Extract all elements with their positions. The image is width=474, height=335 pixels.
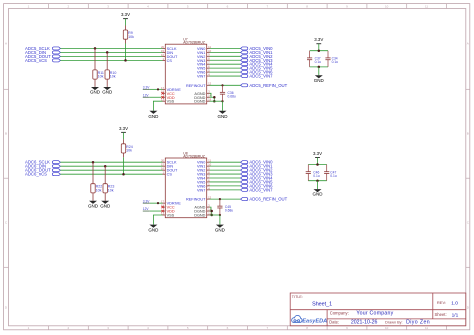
svg-text:B: B [5,132,7,136]
svg-text:10: 10 [385,4,389,8]
svg-text:GND: GND [215,228,226,233]
junction bottom rail [318,66,321,69]
title block outline [290,293,466,326]
net flag ADC5_VIN2 [241,54,274,59]
wire VIN6 to ADC6_VIN6 [210,185,241,187]
wire ground bus to GND stem [210,100,223,102]
pin 12 REFINOUT of U7 [186,82,212,88]
capacitor C46 0.1u [306,165,320,181]
title block horizontal line 2 [327,318,466,320]
wire REFINOUT to ADC5_REFIN_OUT [210,84,241,86]
svg-text:EasyEDA: EasyEDA [302,318,327,324]
pin 2 VDD of U8 [163,207,175,213]
ground under VSS [148,225,159,233]
resistor R9 10k pull-up [123,26,134,44]
net flag ADC6_VIN0 [241,160,274,165]
no-connect mark on VDD pin [161,210,163,212]
wire DGND to ground bus [210,97,215,101]
wire cap bottom to ground [219,215,221,225]
net flag ADC6_SCLK [25,160,60,165]
wire 3.3V flag to R24 [123,132,125,139]
svg-text:2021-10-26: 2021-10-26 [351,320,378,326]
wire bottom rail to ground [317,181,319,189]
svg-text:CS: CS [167,173,173,177]
wire ADC5_nCS to U7 CS [60,59,162,61]
resistor R23 10k pull-down [103,166,114,200]
svg-text:3.3V: 3.3V [313,151,322,156]
pin 13 VSS of U8 [161,211,175,217]
svg-text:ADC6_REFIN_OUT: ADC6_REFIN_OUT [249,197,287,202]
svg-text:1/1: 1/1 [452,312,459,318]
junction bottom rail [316,179,319,182]
svg-text:12V: 12V [143,93,150,97]
title block rev/sheet column divider [432,293,434,319]
junction ground bus at cap [219,214,221,216]
wire AGND jog [210,207,212,211]
wire VIN4 to ADC6_VIN4 [210,177,241,179]
svg-text:11: 11 [425,4,428,8]
title block horizontal line 1 [290,309,466,311]
net flag ADC5_VIN3 [241,58,274,63]
power flag 3.3V above R9 [121,12,130,19]
pin 10 VIN1 of U8 [197,163,212,169]
net flag ADC5_VIN7 [241,74,274,79]
net flag ADC5_VIN1 [241,50,274,55]
net flag ADC5_nCS [25,58,60,63]
pin 17 VDRIVE of U8 [161,200,181,206]
pin 6 VIN5 of U7 [197,65,210,71]
net flag ADC6_VIN6 [241,183,274,188]
pin 13 VSS of U7 [161,98,175,104]
svg-text:ADC5_REFIN_OUT: ADC5_REFIN_OUT [249,83,287,88]
svg-text:TITLE:: TITLE: [292,295,303,299]
svg-text:3.3V: 3.3V [143,85,150,89]
pin 20 SCLK of U8 [161,159,177,165]
svg-text:0.1u: 0.1u [330,174,337,178]
junction on VDRIVE wire [157,88,159,90]
no-connect mark on VDD pin [161,96,163,98]
wire AGND jog [210,93,212,97]
svg-text:10k: 10k [110,75,116,79]
svg-text:GND: GND [313,192,324,197]
svg-text:Date:: Date: [329,319,339,324]
svg-text:Your Company: Your Company [356,311,393,317]
resistor R11 10k pull-down [93,48,104,86]
svg-text:ADC6_VIN7: ADC6_VIN7 [249,187,273,192]
svg-text:A: A [5,41,7,45]
svg-text:1.0: 1.0 [451,300,458,306]
junction DGND bus upper [213,96,216,99]
wire ADC6_SCLK to U8 SCLK [60,161,162,163]
svg-text:GND: GND [148,114,159,119]
net flag ADC6_VIN3 [241,172,274,177]
svg-text:Sheet:: Sheet: [435,312,447,317]
pin 17 VDRIVE of U7 [161,86,181,92]
power flag 3.3V decoupling pair [313,151,322,158]
decoupling bottom rail wire [308,180,326,182]
svg-text:0.1u: 0.1u [313,174,320,178]
pin 5 VIN6 of U7 [197,69,210,75]
svg-text:DGND: DGND [194,100,205,104]
svg-text:Company:: Company: [330,310,349,315]
pin 18 VCC of U8 [161,204,175,210]
svg-text:ADC6_nCS: ADC6_nCS [25,172,47,177]
net flag ADC5_VIN4 [241,62,274,67]
svg-text:DGND: DGND [194,214,205,218]
svg-text:A: A [467,41,469,45]
wire VIN0 to ADC5_VIN0 [210,47,241,49]
no-connect mark on VCC pin [161,206,163,208]
junction DGND bus upper [210,210,213,213]
svg-text:VIN7: VIN7 [197,75,205,79]
svg-text:3.3V: 3.3V [314,37,323,42]
pin 7 VIN4 of U7 [197,61,210,67]
wire ADC6_DIN to U8 DIN [60,165,162,167]
wire ADC6_nCS to U8 CS [60,173,162,175]
net flag ADC6_VIN1 [241,164,274,169]
resistor R22 10k pull-down [91,162,102,200]
svg-text:ADC5_VIN7: ADC5_VIN7 [249,74,273,79]
svg-text:0.68u: 0.68u [225,208,233,212]
IC U7 AD7928BRUZ body [165,44,206,104]
svg-text:3.3V: 3.3V [143,199,150,203]
net flag ADC6_VIN4 [241,176,274,181]
title block logo cell divider [326,310,328,326]
svg-text:GND: GND [218,114,229,119]
junction R23 on ADC6_DIN [104,165,107,168]
junction top rail [316,163,319,166]
svg-text:B: B [467,132,469,136]
ground under R11 [90,87,101,95]
pin 3 AGND of U8 [194,204,210,210]
pin 16 DOUT of U8 [161,167,178,173]
net flag ADC6_VIN2 [241,168,274,173]
ground under R10 [102,87,113,95]
wire 12V toward VDD pin [150,96,162,98]
net flag ADC5_VIN6 [241,70,274,75]
svg-text:REFINOUT: REFINOUT [186,198,206,202]
pin 10 VIN1 of U7 [197,49,212,55]
junction DGND bus lower [210,214,213,217]
junction top rail [318,49,321,52]
svg-text:3.3V: 3.3V [119,126,128,131]
net flag ADC6_nCS [25,172,60,177]
svg-text:GND: GND [88,203,99,208]
svg-text:Sheet_1: Sheet_1 [312,301,332,307]
power flag 12V [143,207,150,211]
svg-text:VIN7: VIN7 [197,188,205,192]
decoupling top rail wire [308,164,326,166]
ground for decoupling pair [314,75,325,83]
wire 3.3V flag to top rail [317,158,319,165]
wire REFINOUT to ADC6_REFIN_OUT [210,198,241,200]
capacitor C36 0.68u [220,85,236,101]
wire VIN0 to ADC6_VIN0 [210,161,241,163]
pin 12 REFINOUT of U8 [186,196,212,202]
wire 3.3V to VDRIVE pin [150,202,163,204]
pin 14 DGND of U7 [194,94,211,100]
svg-text:GND: GND [102,90,113,95]
wire VSS to ground [153,101,162,111]
svg-text:0.1u: 0.1u [332,60,339,64]
frame row letters [5,41,470,309]
svg-text:ADC5_nCS: ADC5_nCS [25,58,47,63]
power flag 3.3V for VDRIVE [143,85,150,89]
svg-text:GND: GND [90,90,101,95]
wire VIN2 to ADC5_VIN2 [210,55,241,57]
net flag ADC6_DIN [25,164,60,169]
svg-text:GND: GND [100,203,111,208]
wire 3.3V to VDRIVE pin [150,88,163,90]
net flag ADC5_DOUT [25,54,60,59]
svg-text:REV:: REV: [437,300,446,305]
power flag 3.3V above R24 [119,126,128,133]
ground for decoupling pair [313,189,324,197]
pin 4 VIN7 of U7 [197,72,210,78]
net flag ADC6_VIN7 [241,187,274,192]
wire VSS to ground [153,215,162,225]
junction ground bus at cap [221,100,223,102]
pin 8 VIN3 of U7 [197,57,210,63]
wire 12V toward VDD pin [150,210,162,212]
svg-text:3.3V: 3.3V [121,12,130,17]
junction on VDRIVE wire [157,202,159,204]
wire 3.3V flag to R9 [125,19,127,26]
pin 15 DIN of U8 [161,163,173,169]
pin 5 VIN6 of U8 [197,182,210,188]
resistor R10 10k pull-down [105,52,116,86]
svg-text:Diyo Zen: Diyo Zen [406,320,430,326]
ground at REFIN cap [215,225,226,233]
junction REFINOUT at cap branch [219,198,221,200]
wire ground bus to GND stem [210,214,220,216]
wire VIN1 to ADC5_VIN1 [210,51,241,53]
pin 3 AGND of U7 [194,90,210,96]
wire VIN1 to ADC6_VIN1 [210,165,241,167]
svg-text:12V: 12V [143,207,150,211]
decoupling bottom rail wire [310,66,328,68]
wire VIN4 to ADC5_VIN4 [210,63,241,65]
wire DGND to ground bus [210,211,212,215]
capacitor C37 0.1u [307,51,321,67]
resistor R24 10k pull-up [121,139,132,157]
pin 11 VIN0 of U7 [197,45,212,51]
wire VIN5 to ADC5_VIN5 [210,67,241,69]
wire VIN3 to ADC6_VIN3 [210,173,241,175]
svg-text:10k: 10k [96,189,102,193]
svg-text:GND: GND [314,78,325,83]
wire VIN2 to ADC6_VIN2 [210,169,241,171]
wire R24 to ADC6_nCS [123,157,125,174]
wire ADC5_DIN to U7 DIN [60,51,162,53]
pin 14 DGND of U8 [194,207,211,213]
decoupling top rail wire [310,50,328,52]
pin 20 SCLK of U7 [161,45,177,51]
pin 2 VDD of U7 [163,94,175,100]
EasyEDA logo cloud [292,315,302,322]
power flag 3.3V for VDRIVE [143,199,150,203]
net flag ADC5_VIN0 [241,46,274,51]
net flag ADC5_DIN [25,50,60,55]
junction R11 on ADC5_SCLK [94,47,97,50]
wire ADC6_DOUT to U8 DOUT [60,169,162,171]
svg-text:VSS: VSS [167,214,175,218]
svg-text:AD7928BRUZ: AD7928BRUZ [183,155,204,159]
ground under R22 [88,201,99,209]
no-connect mark on VCC pin [161,92,163,94]
pin 19 DGND of U8 [194,211,211,217]
pin 19 DGND of U7 [194,98,211,104]
junction R24 on ADC6_nCS [122,173,125,176]
capacitor C47 0.1u [324,165,337,181]
svg-text:0.68u: 0.68u [228,95,236,99]
capacitor C45 0.68u [217,199,233,215]
junction DGND bus lower [213,100,216,103]
wire VIN6 to ADC5_VIN6 [210,71,241,73]
svg-text:0.1u: 0.1u [315,60,322,64]
svg-text:10k: 10k [128,35,134,39]
svg-text:10k: 10k [108,189,114,193]
pin 15 DIN of U7 [161,49,173,55]
pin 7 VIN4 of U8 [197,174,210,180]
wire VIN3 to ADC5_VIN3 [210,59,241,61]
wire ADC5_SCLK to U7 SCLK [60,47,162,49]
svg-text:GND: GND [148,228,159,233]
junction REFINOUT at cap branch [221,84,223,86]
power flag 12V [143,93,150,97]
pin 11 VIN0 of U8 [197,159,212,165]
wire ADC5_DOUT to U7 DOUT [60,55,162,57]
pin 6 VIN5 of U8 [197,178,210,184]
pin 1 CS of U7 [163,57,173,63]
wire 3.3V flag to top rail [318,44,320,51]
wire cap bottom to ground [222,101,224,111]
net flag ADC6_REFIN_OUT [241,197,288,202]
svg-text:CS: CS [167,59,173,63]
net flag ADC5_SCLK [25,46,60,51]
junction R22 on ADC6_SCLK [92,161,95,164]
wire VIN5 to ADC6_VIN5 [210,181,241,183]
pin 1 CS of U8 [163,171,173,177]
net flag ADC6_VIN5 [241,179,274,184]
pin 18 VCC of U7 [161,90,175,96]
svg-text:10k: 10k [126,149,132,153]
net flag ADC6_DOUT [25,168,60,173]
power flag 3.3V decoupling pair [314,37,323,44]
svg-text:VSS: VSS [167,100,175,104]
pin 4 VIN7 of U8 [197,186,210,192]
net flag ADC5_REFIN_OUT [241,83,288,88]
svg-text:Drawn By:: Drawn By: [385,320,403,324]
wire VIN7 to ADC6_VIN7 [210,189,241,191]
frame row ticks [4,89,470,267]
pin 16 DOUT of U7 [161,53,178,59]
ground at REFIN cap [218,111,229,119]
wire VIN7 to ADC5_VIN7 [210,75,241,77]
ground under VSS [148,111,159,119]
IC U8 AD7928BRUZ body [165,158,206,218]
wire bottom rail to ground [318,67,320,75]
pin 9 VIN2 of U7 [197,53,210,59]
svg-text:10: 10 [385,326,389,330]
net flag ADC5_VIN5 [241,66,274,71]
pin 9 VIN2 of U8 [197,167,210,173]
svg-text:AD7928BRUZ: AD7928BRUZ [183,41,204,45]
wire R9 to ADC5_nCS [125,44,127,61]
junction R10 on ADC5_DIN [106,51,109,54]
svg-text:10k: 10k [98,75,104,79]
junction R9 on ADC5_nCS [124,59,127,62]
svg-text:REFINOUT: REFINOUT [186,84,206,88]
pin 8 VIN3 of U8 [197,170,210,176]
ground under R23 [100,201,111,209]
svg-text:11: 11 [425,326,428,330]
capacitor C34 0.1u [325,51,338,67]
